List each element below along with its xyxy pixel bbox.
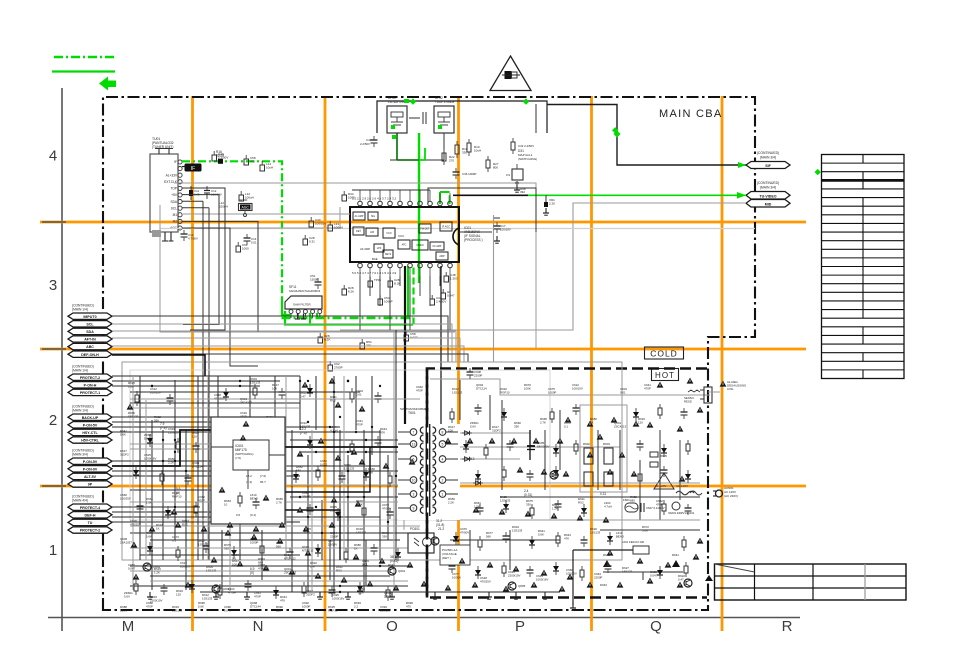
grid line vertical: [324, 96, 327, 631]
svg-text:TP01: TP01: [374, 278, 382, 282]
svg-text:0.6: 0.6: [236, 513, 241, 517]
green CF01 drop: [397, 133, 419, 160]
flag SIF: [746, 162, 790, 169]
svg-text:IF: IF: [174, 160, 177, 164]
wire tuner to IF badge: [182, 166, 186, 168]
svg-text:5.6K: 5.6K: [198, 604, 204, 608]
svg-text:(0): (0): [176, 491, 180, 495]
svg-text:PROTECT-1: PROTECT-1: [80, 391, 100, 395]
svg-text:5.6V: 5.6V: [470, 424, 476, 428]
svg-text:M1: M1: [173, 213, 178, 217]
svg-text:1.5K: 1.5K: [474, 504, 480, 508]
svg-text:P-ON-9V: P-ON-9V: [83, 467, 98, 471]
svg-text:100K: 100K: [356, 502, 363, 506]
svg-text:RGP10: RGP10: [500, 390, 510, 394]
svg-text:680: 680: [630, 498, 635, 502]
svg-text:MTZ J12: MTZ J12: [302, 548, 314, 552]
svg-text:LPF: LPF: [377, 247, 382, 250]
column label P: [515, 618, 525, 635]
svg-text:RU2: RU2: [336, 568, 342, 572]
svg-text:8.2K: 8.2K: [348, 290, 354, 294]
svg-text:2.2K: 2.2K: [549, 201, 555, 205]
svg-text:392: 392: [520, 190, 525, 194]
gray drop x493: [493, 215, 495, 362]
transformer T601: [420, 424, 435, 516]
green pin riser 2: [440, 192, 450, 204]
svg-text:TRAP 4.5MHz: TRAP 4.5MHz: [435, 100, 455, 104]
svg-text:L601 FER-03 100: L601 FER-03 100: [622, 540, 645, 544]
AC wavy line: [676, 491, 694, 495]
green IF trace: [182, 161, 282, 297]
svg-text:P: P: [515, 618, 525, 635]
svg-text:DET2: DET2: [385, 253, 392, 256]
svg-text:AL+33V: AL+33V: [166, 173, 178, 177]
svg-text:0.31: 0.31: [600, 492, 606, 496]
C51 cap: [310, 274, 322, 289]
svg-text:D641: D641: [672, 553, 679, 557]
ceramic filter CF01: [387, 96, 410, 133]
svg-text:VA601 ERZV14D431: VA601 ERZV14D431: [668, 511, 695, 515]
svg-text:RGP10: RGP10: [328, 608, 338, 612]
svg-text:ABC: ABC: [86, 345, 94, 349]
COLD label: [645, 347, 684, 359]
svg-text:100/10V: 100/10V: [380, 608, 391, 612]
svg-text:470P: 470P: [644, 386, 651, 390]
top green diamond: [612, 127, 618, 133]
CF vertical wires: [390, 133, 444, 160]
svg-text:2200P: 2200P: [302, 494, 310, 498]
svg-text:2SC4213: 2SC4213: [240, 400, 252, 404]
bridge D641: [600, 553, 713, 587]
grid line horizontal: [40, 485, 806, 488]
R19 resistor: [467, 139, 481, 156]
svg-text:D643: D643: [600, 583, 607, 587]
svg-text:1000/16V: 1000/16V: [144, 456, 156, 460]
C11 cap: [189, 186, 200, 200]
svg-text:(7.6): (7.6): [300, 431, 307, 435]
svg-text:TOP: TOP: [171, 187, 178, 191]
svg-text:680/200V: 680/200V: [537, 444, 549, 448]
hot C608 cap: [467, 368, 483, 379]
transistor Q: [684, 579, 692, 587]
svg-text:100/25V: 100/25V: [120, 496, 131, 500]
top border green diamond: [410, 98, 416, 104]
svg-text:330: 330: [526, 502, 531, 506]
SAW filter SF01: [285, 285, 322, 309]
svg-text:SAFH4A5MC74AAZ00R03: SAFH4A5MC74AAZ00R03: [289, 289, 321, 293]
flag MID: [746, 200, 790, 208]
wire green TU-VIDEO: [528, 194, 746, 196]
IC01 top pin leads: [360, 193, 450, 201]
svg-text:800: 800: [493, 165, 498, 169]
svg-text:MTZ-J12: MTZ-J12: [284, 556, 296, 560]
svg-text:(MAIN 4/4): (MAIN 4/4): [72, 499, 88, 503]
svg-text:1: 1: [442, 492, 444, 496]
svg-text:C32 2.4/50V: C32 2.4/50V: [518, 144, 534, 148]
transistor Q601: [388, 567, 406, 575]
hot ground sym: [570, 603, 576, 610]
svg-text:1000/16V: 1000/16V: [536, 577, 548, 581]
svg-text:O: O: [386, 618, 398, 635]
grid line horizontal: [40, 348, 806, 351]
svg-text:(MAIN 1/4): (MAIN 1/4): [72, 409, 88, 413]
svg-text:2200P: 2200P: [330, 534, 338, 538]
transistor Q603: [212, 585, 230, 593]
AC inlet label: [724, 486, 738, 498]
svg-text:10K: 10K: [232, 562, 237, 566]
svg-text:VCO: VCO: [386, 232, 391, 235]
svg-text:10: 10: [224, 502, 228, 506]
svg-text:IF: IF: [191, 166, 195, 172]
svg-text:RGP10: RGP10: [172, 494, 182, 498]
svg-text:47/50V: 47/50V: [460, 530, 469, 534]
svg-text:2SC4213: 2SC4213: [284, 570, 296, 574]
svg-text:2: 2: [442, 478, 444, 482]
svg-text:DTC144: DTC144: [250, 604, 261, 608]
svg-text:Q603: Q603: [222, 587, 230, 591]
warning triangle fuse symbol: [490, 56, 531, 91]
svg-text:DTC114: DTC114: [192, 464, 203, 468]
right green diamond: [815, 169, 821, 175]
T601 pins: [398, 429, 458, 512]
svg-text:100K: 100K: [120, 608, 127, 612]
svg-text:(7.4): (7.4): [160, 426, 167, 430]
svg-text:KF AMP: KF AMP: [433, 245, 442, 248]
svg-text:1000: 1000: [242, 247, 249, 251]
IC601 label2: [246, 474, 266, 484]
wire gray MID: [340, 203, 746, 330]
HOT area dashed boundary: [427, 369, 707, 598]
wire top box right: [535, 104, 537, 133]
green pin drops saw: [310, 313, 317, 325]
saw pin gnd legs: [295, 314, 306, 320]
svg-text:470: 470: [406, 604, 411, 608]
svg-text:0.9: 0.9: [506, 173, 510, 177]
svg-text:0.31: 0.31: [309, 240, 315, 244]
C17 cap: [494, 218, 511, 243]
svg-text:1000P: 1000P: [384, 300, 393, 304]
green arrow into TU-VIDEO: [737, 192, 746, 199]
svg-text:3: 3: [49, 277, 57, 294]
bold wire d: [112, 355, 205, 376]
svg-text:0.01: 0.01: [251, 240, 257, 244]
wire m1: [182, 221, 258, 332]
svg-text:0.3: 0.3: [470, 457, 475, 461]
C12 cap: [204, 186, 222, 199]
parts table right: [822, 155, 905, 379]
svg-text:1.5K: 1.5K: [146, 500, 152, 504]
svg-text:0.47: 0.47: [300, 394, 306, 398]
svg-text:12K: 12K: [276, 608, 281, 612]
hot interior wires: [440, 380, 700, 570]
inductor L601: [573, 540, 649, 605]
svg-text:1SS133: 1SS133: [622, 569, 633, 573]
extra component labels: [120, 385, 423, 612]
svg-text:470P: 470P: [656, 502, 663, 506]
svg-text:47/50V: 47/50V: [382, 506, 391, 510]
green SAW risers: [408, 266, 414, 325]
svg-text:Q601: Q601: [398, 569, 406, 573]
svg-text:100/25V: 100/25V: [566, 571, 577, 575]
svg-text:LIM: LIM: [370, 231, 374, 234]
wire bus down2: [182, 188, 225, 330]
svg-text:RU2: RU2: [182, 522, 188, 526]
svg-text:330: 330: [224, 546, 229, 550]
svg-text:10/50V: 10/50V: [328, 542, 337, 546]
svg-text:SCL: SCL: [171, 206, 177, 210]
grid line horizontal: [40, 221, 806, 224]
svg-text:13: 13: [412, 442, 416, 446]
svg-text:R602: R602: [583, 442, 590, 446]
svg-text:31DF2: 31DF2: [120, 452, 129, 456]
svg-text:AFT-IN: AFT-IN: [84, 338, 96, 342]
hot gray frame: [430, 379, 710, 395]
svg-text:PC601: PC601: [410, 527, 420, 531]
svg-text:3: 3: [413, 492, 415, 496]
component labels scatter lower-left: [120, 377, 395, 602]
row label 2: [49, 412, 57, 429]
green arrow into SIF: [738, 162, 746, 168]
svg-text:DET: DET: [356, 230, 361, 233]
svg-text:1: 1: [49, 542, 57, 559]
MAIN CBA title: [659, 108, 723, 120]
svg-text:2.2/50V: 2.2/50V: [360, 142, 370, 146]
svg-text:56K: 56K: [154, 418, 159, 422]
IF small components scatter: [212, 151, 458, 371]
svg-text:(DET ): (DET ): [442, 556, 451, 560]
column label N: [253, 618, 264, 635]
svg-text:1K: 1K: [354, 546, 358, 550]
svg-text:AFC: AFC: [402, 244, 407, 247]
grid line vertical: [590, 96, 593, 631]
transistor Q: [550, 471, 558, 479]
tuner antenna stub: [155, 149, 173, 155]
svg-text:2SC4213: 2SC4213: [614, 424, 626, 428]
transistor Q: [431, 537, 439, 545]
IC01 bottom pin values: [352, 271, 397, 275]
C32 part: [511, 138, 534, 154]
svg-text:BEAD: BEAD: [616, 534, 624, 538]
svg-text:SCL: SCL: [86, 322, 94, 326]
svg-text:56K: 56K: [276, 544, 281, 548]
R22 resistor: [442, 149, 455, 165]
tuner I2C drop 2: [208, 208, 210, 560]
svg-text:C36 1000P: C36 1000P: [462, 172, 477, 176]
svg-text:1SS133: 1SS133: [512, 528, 523, 532]
svg-text:1.2K: 1.2K: [128, 384, 134, 388]
bold wire e: [285, 510, 340, 560]
IC01 top pin values: [352, 197, 397, 201]
warning triangles scatter: [127, 378, 704, 592]
wire vcc up: [428, 188, 536, 232]
VR1 pot: [543, 195, 555, 215]
svg-text:(MAIN 3/4): (MAIN 3/4): [760, 156, 776, 160]
hot gray frame2: [580, 405, 627, 492]
svg-text:T601: T601: [408, 411, 416, 415]
svg-text:470P: 470P: [198, 498, 205, 502]
svg-text:2.2K: 2.2K: [448, 500, 454, 504]
bold wire c: [285, 447, 370, 492]
svg-text:AMP: AMP: [439, 255, 445, 258]
svg-text:56K: 56K: [486, 534, 491, 538]
svg-text:0.047: 0.047: [128, 566, 136, 570]
row label 1: [49, 542, 57, 559]
hot resistor pair: [583, 442, 613, 464]
svg-text:1.2K: 1.2K: [552, 506, 558, 510]
wire sda: [182, 200, 203, 202]
svg-text:B.2K: B.2K: [394, 282, 401, 286]
bold wire b: [285, 446, 398, 448]
svg-text:(0.1): (0.1): [250, 513, 256, 517]
svg-text:5.6K: 5.6K: [120, 432, 126, 436]
lower-left gray mesh: [130, 330, 420, 592]
R18 resistor: [455, 141, 468, 158]
svg-text:(CONTINUED): (CONTINUED): [757, 181, 779, 185]
C14 cap: [244, 234, 258, 245]
svg-text:Q: Q: [650, 618, 662, 635]
svg-text:1SS133: 1SS133: [128, 414, 139, 418]
gray page line: [160, 228, 755, 230]
C13 cap: [181, 230, 199, 241]
svg-text:10uH: 10uH: [266, 166, 273, 170]
svg-text:(SWITCHING): (SWITCHING): [518, 157, 537, 161]
svg-text:2700P: 2700P: [334, 366, 343, 370]
flag TU-VIDEO: [746, 192, 790, 200]
svg-text:2SA1037: 2SA1037: [120, 540, 132, 544]
svg-text:SF11: SF11: [289, 285, 297, 289]
svg-text:470P: 470P: [416, 388, 423, 392]
R98 label: [520, 187, 526, 194]
svg-text:(MAIN 1/4): (MAIN 1/4): [72, 308, 88, 312]
AL120V triangle: [654, 473, 674, 489]
svg-text:2200P: 2200P: [474, 373, 482, 377]
svg-text:5: 5: [442, 442, 444, 446]
green IC riser: [418, 133, 420, 283]
svg-text:4.7uH: 4.7uH: [604, 504, 612, 508]
AC inlet plug: [690, 490, 723, 497]
svg-text:2.7K: 2.7K: [540, 420, 546, 424]
legend green arrow: [99, 77, 116, 91]
svg-text:100/10V: 100/10V: [180, 564, 191, 568]
svg-text:1SS133: 1SS133: [202, 596, 213, 600]
svg-text:R: R: [782, 618, 793, 635]
svg-text:9P: 9P: [88, 483, 93, 487]
bottom border rule: [48, 617, 800, 619]
svg-text:PROTECT-2: PROTECT-2: [80, 376, 100, 380]
degaussing coil note: [708, 380, 747, 392]
R27 resistor: [486, 156, 499, 172]
svg-text:SDA: SDA: [170, 200, 177, 204]
svg-text:HSY-CTL: HSY-CTL: [82, 431, 98, 435]
svg-text:SAW FILTER: SAW FILTER: [293, 303, 312, 307]
R16 label: [216, 150, 224, 157]
svg-text:120: 120: [638, 420, 643, 424]
svg-text:4.7uH: 4.7uH: [228, 590, 236, 594]
title block table: [715, 564, 907, 600]
IC601 block: [211, 417, 285, 524]
svg-text:H5V-CTRL: H5V-CTRL: [81, 439, 99, 443]
svg-text:4.7/50V: 4.7/50V: [188, 236, 198, 240]
svg-text:470/25V: 470/25V: [480, 579, 491, 583]
component glyph scatter hot: [449, 404, 692, 581]
svg-text:18.2: 18.2: [246, 474, 252, 478]
svg-text:10: 10: [412, 478, 416, 482]
svg-text:2.2/50V: 2.2/50V: [218, 156, 228, 160]
IC01 bottom pin drops: [360, 276, 450, 330]
sensor resistor sym: [684, 390, 700, 403]
svg-text:31DF2: 31DF2: [306, 592, 315, 596]
transformer backdrop: [398, 424, 460, 520]
black bold vert x405: [404, 266, 406, 435]
svg-text:A1 AMP: A1 AMP: [355, 215, 364, 218]
svg-text:AGC: AGC: [242, 206, 250, 210]
grid line vertical: [457, 96, 460, 631]
continued note (TU-VIDEO): [757, 181, 779, 190]
svg-text:120: 120: [176, 592, 181, 596]
svg-text:2200/10V: 2200/10V: [508, 573, 520, 577]
svg-text:1SS133: 1SS133: [206, 568, 217, 572]
svg-text:2.7K: 2.7K: [276, 500, 282, 504]
svg-text:P-ON-5V: P-ON-5V: [83, 423, 98, 427]
svg-text:10uH: 10uH: [474, 148, 481, 152]
wire agc: [182, 228, 258, 366]
left rule tick: [42, 348, 66, 350]
svg-text:2: 2: [49, 412, 57, 429]
hot diode arrows: [447, 431, 483, 485]
svg-text:2.2K: 2.2K: [358, 590, 364, 594]
svg-text:33K: 33K: [514, 424, 519, 428]
svg-text:0.047: 0.047: [447, 294, 455, 298]
transistor Q605: [508, 582, 526, 590]
svg-text:5.6V: 5.6V: [124, 594, 130, 598]
svg-text:P-ON-5V: P-ON-5V: [83, 460, 98, 464]
svg-text:0.01: 0.01: [362, 562, 368, 566]
C605 cap: [527, 441, 549, 450]
IF shield box: [377, 101, 547, 133]
svg-text:TP300: TP300: [239, 198, 248, 202]
svg-text:33K: 33K: [382, 534, 387, 538]
svg-text:RESD: RESD: [684, 399, 692, 403]
svg-text:1000P: 1000P: [548, 390, 556, 394]
green cf risers: [419, 148, 425, 160]
svg-text:DTC114: DTC114: [476, 386, 487, 390]
svg-text:470/25V: 470/25V: [214, 396, 225, 400]
tuner I2C drop 1: [202, 201, 204, 560]
svg-text:(0.81): (0.81): [390, 559, 398, 563]
svg-text:RU2: RU2: [578, 500, 584, 504]
row label 4: [49, 148, 57, 165]
HOT boundary redraw over transformer: [426, 369, 429, 598]
svg-text:Q605: Q605: [518, 584, 526, 588]
column label O: [386, 618, 398, 635]
green node on SIF wire: [613, 130, 620, 137]
svg-text:(MAIN 3/4): (MAIN 3/4): [760, 186, 776, 190]
secondary gray frame: [122, 362, 622, 560]
svg-text:PROTECT-4: PROTECT-4: [80, 506, 100, 510]
IC01 top riser bus: [352, 190, 430, 193]
wire scl: [182, 207, 209, 209]
svg-text:4: 4: [442, 457, 444, 461]
ceramic filter CF02: [434, 96, 455, 133]
CF green marks: [391, 99, 442, 139]
left rule tick: [42, 485, 66, 487]
svg-text:470/25V: 470/25V: [258, 566, 269, 570]
svg-text:0.1: 0.1: [172, 538, 176, 542]
svg-text:0.047: 0.047: [650, 573, 658, 577]
tuner bottom legs: [152, 230, 174, 241]
svg-text:220uH: 220uH: [219, 204, 228, 208]
filter mid caps: [409, 112, 426, 124]
